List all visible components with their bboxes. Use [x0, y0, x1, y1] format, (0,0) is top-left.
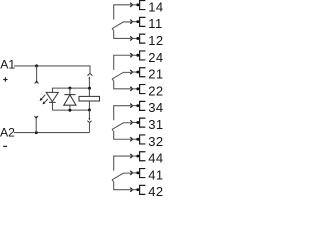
- terminal clamp 12: [136, 37, 139, 40]
- plug chevron 12: [130, 36, 132, 40]
- plug chevron 41: [130, 171, 132, 175]
- terminal clamp 31: [136, 121, 139, 124]
- junction A2: [35, 131, 38, 134]
- top rail of coil circuit: [53, 88, 90, 92]
- svg-text:12: 12: [148, 33, 163, 48]
- svg-text:41: 41: [148, 167, 163, 182]
- wire to terminal 42: [133, 189, 138, 191]
- node bottom-diode: [68, 109, 71, 112]
- plug chevron 14: [130, 3, 132, 7]
- wire to terminal 24: [133, 54, 138, 56]
- contact 14 NO wire: [114, 5, 131, 20]
- contact 24 NO wire: [114, 55, 131, 70]
- wire A2 rail: [14, 132, 90, 134]
- wire to terminal 21: [133, 71, 138, 73]
- svg-text:A2: A2: [0, 126, 15, 140]
- plug chevron 31: [130, 120, 132, 124]
- node top-diode: [68, 87, 71, 90]
- plug socket A2 right: [87, 121, 91, 123]
- plug socket A2 left: [34, 116, 38, 118]
- terminal clamp 21: [136, 71, 139, 74]
- armature 41: [112, 173, 131, 181]
- wire to terminal 14: [133, 4, 138, 6]
- terminal clamp 11: [136, 20, 139, 23]
- wire to terminal 11: [133, 21, 138, 23]
- label minus polarity: [3, 145, 7, 147]
- relay coil K1: [88, 88, 90, 96]
- contact 32 NC wire: [114, 131, 131, 139]
- svg-text:24: 24: [148, 50, 163, 65]
- terminal clamp 14: [136, 3, 139, 6]
- bottom rail of coil circuit: [53, 109, 90, 111]
- wire A1 stub down: [36, 66, 38, 82]
- svg-text:22: 22: [148, 83, 163, 98]
- plug chevron 42: [130, 188, 132, 192]
- contact 22 NC wire: [114, 81, 131, 89]
- plug chevron 21: [130, 70, 132, 74]
- svg-text:32: 32: [148, 134, 163, 149]
- plug socket A1 left: [35, 81, 39, 83]
- wire to terminal 41: [133, 172, 138, 174]
- terminal clamp 22: [136, 87, 139, 90]
- plug socket A1 right: [88, 73, 93, 75]
- svg-text:A1: A1: [0, 58, 15, 72]
- wire to terminal 31: [133, 121, 138, 123]
- wire to terminal 32: [133, 138, 138, 140]
- junction A1: [35, 64, 38, 67]
- svg-text:44: 44: [148, 151, 163, 166]
- node top-coil: [88, 87, 91, 90]
- svg-text:14: 14: [148, 0, 163, 14]
- terminal clamp 42: [136, 188, 139, 191]
- contact 42 NC wire: [114, 181, 131, 189]
- wire to terminal 44: [133, 155, 138, 157]
- terminal clamp 41: [136, 171, 139, 174]
- svg-text:21: 21: [148, 67, 163, 82]
- armature 11: [112, 22, 131, 30]
- label plus polarity: [3, 77, 7, 81]
- plug chevron 44: [130, 154, 132, 158]
- svg-text:11: 11: [148, 16, 162, 31]
- contact 44 NO wire: [114, 156, 131, 171]
- diode V1: [69, 88, 71, 95]
- plug chevron 11: [130, 20, 132, 24]
- terminal clamp 34: [136, 104, 139, 107]
- pin module to A2: [88, 110, 90, 118]
- wire to terminal 12: [133, 37, 138, 39]
- armature 31: [112, 123, 131, 131]
- plug chevron 22: [130, 87, 132, 91]
- terminal clamp 44: [136, 155, 139, 158]
- wire to terminal 34: [133, 105, 138, 107]
- LED D1: [46, 92, 58, 101]
- node bottom-coil: [88, 109, 91, 112]
- terminal clamp 24: [136, 54, 139, 57]
- plug chevron 24: [130, 53, 132, 57]
- svg-text:34: 34: [148, 100, 163, 115]
- wire to terminal 22: [133, 88, 138, 90]
- terminal clamp 32: [136, 138, 139, 141]
- svg-text:31: 31: [148, 117, 163, 132]
- LED emission arrows: [40, 95, 48, 105]
- svg-text:42: 42: [148, 184, 163, 199]
- contact 12 NC wire: [114, 30, 131, 38]
- contact 34 NO wire: [114, 106, 131, 121]
- plug chevron 32: [130, 137, 132, 141]
- wire A1 rail: [14, 66, 90, 74]
- pin A1 into module: [89, 76, 91, 78]
- armature 21: [112, 72, 131, 80]
- plug chevron 34: [130, 104, 132, 108]
- wire A2 stub up: [35, 118, 37, 133]
